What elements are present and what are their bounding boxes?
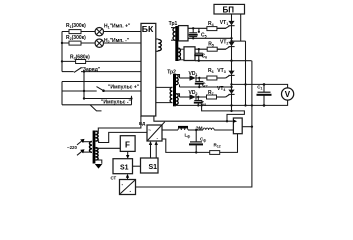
winding Tr1 primary xyxy=(171,28,175,41)
svg-text:~: ~ xyxy=(148,128,151,133)
wire bottom return R12 xyxy=(162,139,210,154)
thyristor VT3 xyxy=(217,68,234,76)
transformer Tr1 label xyxy=(169,21,178,27)
capacitor C7 xyxy=(195,77,208,89)
left rail top xyxy=(61,32,63,72)
resistor R4 xyxy=(207,21,217,31)
winding Tr2 primary xyxy=(156,87,173,102)
wire top meter xyxy=(232,84,288,88)
svg-text:~220: ~220 xyxy=(67,145,77,150)
wire VD out to L xyxy=(162,129,178,131)
winding Tr2 secondary1 xyxy=(176,75,180,85)
switch SA1 Zaryad xyxy=(74,67,101,73)
svg-text:ВД: ВД xyxy=(139,121,146,126)
voltmeter PV1 xyxy=(282,88,294,100)
arrow S1 to S1 xyxy=(133,165,148,168)
gate wire VT4 xyxy=(217,95,230,97)
rectifier U2 box xyxy=(184,47,195,61)
wire line5 to BK xyxy=(62,81,141,83)
arrows mains input xyxy=(67,139,85,155)
wire VD2 row xyxy=(180,96,225,98)
svg-text:S1: S1 xyxy=(149,164,158,171)
wire U1 top row xyxy=(188,27,226,29)
resistor R12 xyxy=(210,143,221,155)
svg-text:R2(300к): R2(300к) xyxy=(66,35,86,41)
svg-text:СТ: СТ xyxy=(111,176,117,181)
vertical link x84 xyxy=(83,70,85,98)
wire bottom meter xyxy=(174,100,288,107)
lamp H1 xyxy=(95,24,131,36)
wire L to EM xyxy=(188,129,203,131)
capacitor C6 xyxy=(194,48,207,62)
rail C xyxy=(244,41,246,107)
capacitor C8 xyxy=(194,96,206,107)
wire line6 impulse plus xyxy=(62,89,141,92)
svg-text:"Импульс -": "Импульс -" xyxy=(101,100,131,106)
svg-text:"Импульс +": "Импульс +" xyxy=(108,84,140,90)
wire regulator output xyxy=(242,126,253,128)
winding Tr1 secondary2 xyxy=(178,48,184,60)
svg-text:F: F xyxy=(125,141,130,150)
lamp H2 xyxy=(95,38,130,47)
resistor R2 xyxy=(66,35,86,45)
wire VD1 row xyxy=(180,77,225,79)
resistor R1 xyxy=(66,23,86,34)
svg-text:БК: БК xyxy=(142,24,154,34)
block F xyxy=(120,136,135,152)
rectifier U1 box xyxy=(179,26,189,41)
wire line8 impulse minus xyxy=(62,100,132,106)
mains transformer T1 xyxy=(93,131,96,164)
block CT converter xyxy=(111,176,136,195)
block VD rectifier xyxy=(139,121,165,141)
arrow CT to S1 xyxy=(126,174,129,180)
switch SA3 Impulse minus xyxy=(90,105,102,111)
resistor R7 xyxy=(207,90,217,99)
wire EM to regulator xyxy=(214,129,233,131)
wire link y41 xyxy=(230,40,245,42)
bus A vertical xyxy=(230,14,232,112)
resistor R5 xyxy=(207,41,217,51)
winding W1 at BK right edge xyxy=(156,39,162,51)
bus B vertical xyxy=(240,14,242,41)
wire U2 bottom return xyxy=(195,60,252,62)
wire net2 xyxy=(200,104,244,122)
wire R12 to regulator bottom xyxy=(220,134,238,153)
block S1 left xyxy=(113,159,133,174)
svg-text:R1(300к): R1(300к) xyxy=(66,23,86,29)
wire line1 to BK xyxy=(62,31,141,33)
coil EM xyxy=(196,126,215,131)
block BP xyxy=(214,4,245,14)
winding Tr2 secondary2 xyxy=(176,94,180,105)
svg-text:R3(680к): R3(680к) xyxy=(70,55,90,61)
thyristor VT2 xyxy=(220,40,235,47)
wire U1 bottom return xyxy=(188,37,233,39)
gate wire VT3 xyxy=(217,76,230,78)
svg-text:V: V xyxy=(285,90,291,99)
capacitor C5 xyxy=(189,27,207,39)
arrow F to S1 xyxy=(126,151,129,159)
wire regulator input top xyxy=(154,116,233,121)
svg-text:БП: БП xyxy=(223,5,235,14)
svg-text:ЭМ: ЭМ xyxy=(196,126,203,131)
wire line3 R3 to BK xyxy=(61,60,141,62)
regulator A1 box xyxy=(233,118,242,134)
resistor R3 xyxy=(70,55,90,64)
wire line7 xyxy=(83,96,133,105)
gate wire VT1 xyxy=(217,26,230,28)
capacitor C1 xyxy=(257,83,272,107)
wire Tr2 row1 return xyxy=(180,85,233,89)
wire line4 Zaryad to BK xyxy=(62,71,141,73)
gate wire VT2 xyxy=(217,47,229,49)
thyristor VT4 xyxy=(217,86,235,94)
winding T1 primary xyxy=(82,142,92,153)
switch SA2 Impulse plus xyxy=(97,84,140,90)
diode VD2 xyxy=(189,90,198,100)
block BK xyxy=(141,23,156,116)
transformer core Tr1/Tr2 xyxy=(175,26,178,61)
ground xyxy=(95,164,103,169)
left rail bottom xyxy=(61,82,63,105)
inductor L xyxy=(178,127,190,139)
block S1 right xyxy=(141,158,159,173)
transformer core Tr2 xyxy=(173,74,176,106)
capacitor Cf xyxy=(189,130,206,152)
transformer Tr2 label xyxy=(167,70,176,76)
wire line2 to BK xyxy=(61,42,141,44)
resistor R6 xyxy=(207,68,217,80)
arrows into VD xyxy=(149,141,158,158)
diode VD1 xyxy=(189,71,198,81)
winding T1 secondary1 xyxy=(96,116,148,143)
thyristor VT1 xyxy=(220,20,235,26)
wire U2 top row xyxy=(195,48,226,50)
svg-text:S1: S1 xyxy=(120,165,129,172)
winding T1 secondary2 xyxy=(96,148,121,164)
wire link y60 drop xyxy=(136,61,252,187)
